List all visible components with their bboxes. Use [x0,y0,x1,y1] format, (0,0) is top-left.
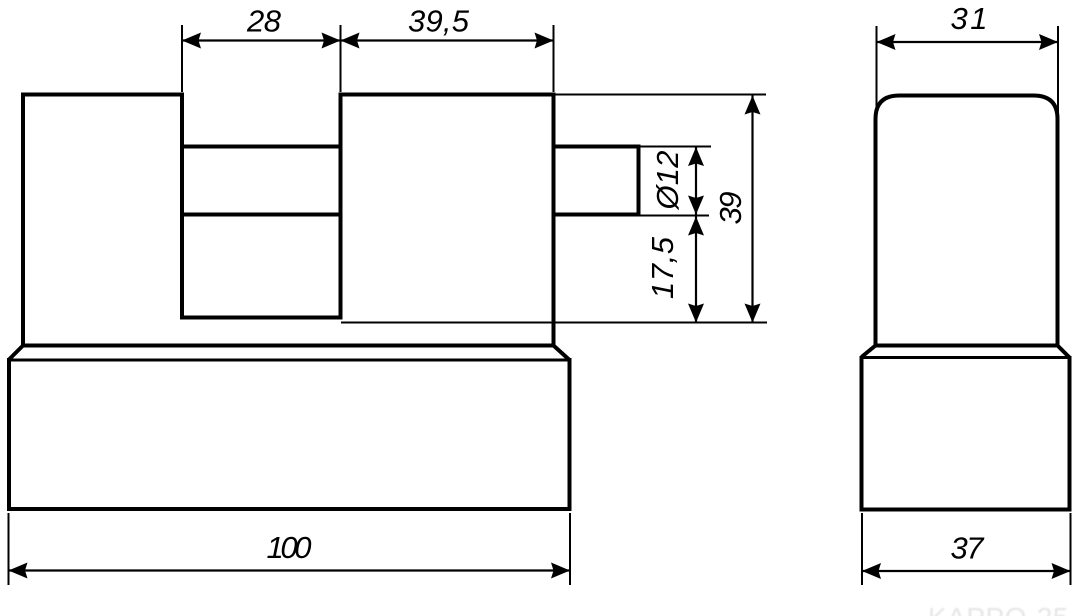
front view: base sides and bottom [9,358,570,509]
arrow left tip of 31 [877,34,896,50]
side view: base sides and bottom [862,356,1070,510]
side view: bottom line of upper body [874,344,1060,348]
extension line left of 100 [8,513,10,585]
extension line left of 28 [181,25,183,92]
side view: right chamfer [1058,346,1070,358]
extension line bottom for 17,5 and 39 [341,322,767,324]
front view: base top edge [9,359,570,362]
front view: cylinder upper silhouette in notch [182,145,341,149]
extension line shaft top for phi12 [641,146,712,148]
dimension line 100 [9,569,571,571]
svg-text:28: 28 [246,4,282,39]
side view: upper body rounded outline [876,96,1058,348]
svg-text:39,5: 39,5 [408,4,470,39]
front view: right chamfer [554,346,570,361]
arrow left tip of 100 [9,563,28,579]
arrow down tip of 39 [745,304,761,323]
arrow down tip of phi12 [688,196,704,215]
arrow right tip of 31 [1039,34,1058,50]
extension line between 28 and 39,5 [340,25,342,92]
arrow right tip of 39,5 [535,33,554,49]
arrow up tip of 39 [745,96,761,115]
extension line right of 39,5 [553,25,555,92]
dimension line 37 [862,570,1071,572]
arrow up tip of phi12 [688,147,704,166]
svg-text:Ø12: Ø12 [650,151,685,211]
dimension line 31 [877,41,1059,43]
arrow right tip of 28 [322,33,341,49]
dimension line 39 [751,96,753,323]
svg-text:17,5: 17,5 [645,236,680,299]
arrow right tip of 37 [1052,563,1071,579]
extension line top for 39 [556,94,767,96]
extension line right of 31 [1057,26,1059,116]
side view: left chamfer [862,346,876,358]
svg-text:100: 100 [267,530,312,565]
dimension line phi12 [695,147,697,215]
arrow up tip of 17,5 [688,217,704,236]
arrow down tip of 17,5 [688,304,704,323]
front view: left chamfer [9,346,23,360]
front view: cylinder lower silhouette in notch [182,213,341,217]
arrow left tip of 37 [862,563,881,579]
extension line left of 31 [876,26,878,116]
front view: upper body outline with shackle notch [23,95,554,348]
arrow right tip of 100 [551,563,570,579]
watermark [928,602,1069,616]
svg-text:37: 37 [951,531,986,566]
side view: base top edge [862,356,1070,359]
extension line right of 100 [569,513,571,585]
extension line left of 37 [861,513,863,585]
arrow left tip of 39,5 [341,33,360,49]
svg-text:39: 39 [713,192,748,225]
dimension line 28 and 39,5 [182,39,554,41]
extension line right of 37 [1070,513,1072,585]
extension line shaft bottom for 17,5 [641,215,710,217]
dimension line 17,5 [695,217,697,323]
svg-text:KAPPO-25: KAPPO-25 [928,602,1069,616]
front view: bottom line of upper body [21,344,556,348]
front view: protruding shaft [554,147,639,215]
arrow left tip of 28 [182,33,201,49]
